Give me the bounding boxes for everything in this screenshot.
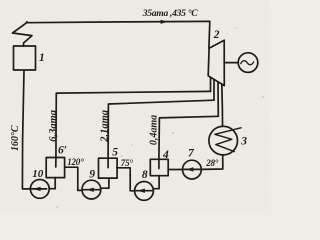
svg-text:1: 1 — [39, 52, 45, 64]
wire: turbine shaft to generator — [224, 62, 238, 64]
svg-text:4: 4 — [162, 149, 169, 161]
svg-text:3: 3 — [240, 136, 247, 148]
svg-text:35ата ,435 °С: 35ата ,435 °С — [142, 8, 198, 19]
pump 9 — [82, 180, 101, 199]
wire: feedwater line to boiler — [22, 70, 30, 188]
generator tilde — [241, 61, 254, 65]
pump 7 — [183, 160, 202, 179]
heater 5 (box) — [99, 158, 118, 178]
wire: condensate to pump 7 — [202, 155, 223, 170]
steam flow arrow — [161, 20, 168, 24]
wire: extraction line 2.1 ata to heater 5 — [108, 100, 214, 167]
steam zigzag symbol from boiler — [13, 22, 33, 47]
svg-text:75°: 75° — [121, 158, 134, 168]
svg-text:28°: 28° — [205, 158, 219, 168]
svg-text:120°: 120° — [67, 157, 84, 167]
pump 9 arrow — [83, 189, 101, 191]
turbine 2 — [208, 40, 224, 85]
paper specks — [56, 19, 263, 207]
pump 10 — [30, 180, 49, 199]
heater 6 (box) — [46, 158, 64, 178]
wire: heater 6 drain to pump 10 — [49, 178, 55, 189]
wire: extraction riser 2 — [213, 79, 215, 100]
wire: extraction riser 3 — [217, 82, 219, 117]
wire: extraction line 0.4 ata to heater 4 — [159, 116, 218, 168]
wire: extraction line 6.3 ata to heater 6 — [56, 91, 211, 167]
boiler 1 (box) — [14, 46, 36, 70]
svg-text:5: 5 — [112, 146, 118, 158]
svg-text:9: 9 — [89, 168, 95, 180]
wire: pump 7 to heater 4 — [168, 169, 182, 171]
svg-text:10: 10 — [32, 168, 44, 180]
svg-text:160°С: 160°С — [10, 125, 21, 151]
wire: pump 9 to heater 6 — [65, 167, 82, 190]
pump 7 arrow — [183, 168, 201, 170]
wire: steam downcomer to turbine — [208, 21, 211, 48]
condenser cooling-water zigzag — [215, 128, 241, 152]
svg-text:6,3ата: 6,3ата — [48, 110, 59, 142]
wire: heater 4 drain to pump 8 — [153, 176, 159, 189]
svg-text:2: 2 — [213, 29, 220, 41]
generator — [238, 53, 258, 73]
svg-text:6′: 6′ — [58, 145, 67, 157]
pump 8 arrow — [135, 190, 152, 192]
svg-text:2,1ата: 2,1ата — [99, 110, 110, 143]
wire: main steam line — [27, 21, 210, 22]
wire: extraction riser 1 — [210, 77, 212, 91]
wire: turbine exhaust to condenser — [221, 84, 224, 127]
pump 10 arrow — [31, 188, 46, 190]
condenser 3 — [209, 126, 238, 155]
wire: pump 8 to heater 5 — [117, 168, 135, 191]
svg-text:0,4ата: 0,4ата — [148, 115, 159, 145]
wire: heater 5 drain to pump 9 — [101, 178, 109, 188]
svg-text:8: 8 — [142, 169, 148, 181]
heater 4 (box) — [150, 159, 168, 175]
pump 8 — [135, 182, 154, 201]
